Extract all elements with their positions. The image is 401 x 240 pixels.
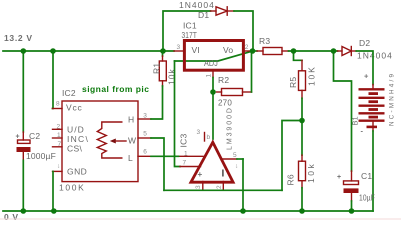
svg-text:GND: GND — [67, 166, 87, 176]
battery B1 — [351, 72, 396, 136]
wire battery to rail — [372, 131, 374, 211]
svg-text:5: 5 — [233, 152, 237, 159]
diode D2 — [338, 38, 393, 61]
svg-text:+: + — [198, 170, 203, 179]
svg-text:signal from pic: signal from pic — [82, 84, 149, 94]
diode D1 — [163, 0, 253, 51]
wire D2 to battery — [356, 51, 373, 85]
pin stubs left — [179, 155, 204, 157]
wire top rail left — [3, 50, 174, 52]
svg-text:H: H — [128, 115, 134, 125]
svg-text:CS\: CS\ — [67, 144, 82, 154]
svg-text:100K: 100K — [59, 183, 84, 193]
wire op-amp bottom — [164, 189, 282, 191]
svg-text:R5: R5 — [288, 77, 298, 88]
svg-text:3: 3 — [195, 185, 202, 189]
svg-text:1N4004: 1N4004 — [357, 51, 392, 61]
pins left — [53, 108, 63, 110]
svg-text:5: 5 — [143, 131, 147, 138]
svg-text:1000µF: 1000µF — [26, 151, 56, 161]
power pin stub top — [204, 133, 206, 142]
wire W pin down — [151, 138, 164, 190]
svg-text:+: + — [364, 72, 369, 81]
svg-text:6: 6 — [143, 149, 147, 156]
wire ADJ down — [212, 78, 214, 140]
capacitor C2 — [16, 131, 57, 161]
svg-text:8: 8 — [56, 101, 60, 108]
svg-text:L: L — [128, 153, 133, 163]
svg-text:+: + — [16, 134, 20, 141]
svg-text:↓: ↓ — [235, 163, 238, 170]
svg-text:W: W — [128, 135, 136, 145]
svg-text:C1: C1 — [361, 171, 372, 181]
svg-text:+: + — [337, 174, 341, 181]
svg-text:2: 2 — [57, 123, 61, 130]
bottom stubs — [202, 182, 204, 191]
pins right — [138, 118, 151, 120]
wire op-amp right to ground — [242, 159, 244, 211]
wire R1 to H pin — [151, 86, 163, 119]
svg-text:U/D: U/D — [67, 125, 84, 135]
svg-text:R2: R2 — [218, 75, 229, 85]
resistor R1 — [152, 51, 177, 86]
svg-text:3: 3 — [177, 44, 181, 51]
svg-text:2: 2 — [245, 44, 249, 51]
svg-text:Vcc: Vcc — [66, 103, 83, 113]
wire R5 to R6 — [301, 98, 303, 155]
resistor R2 — [217, 51, 252, 108]
svg-text:D2: D2 — [359, 38, 370, 48]
potentiometer glyph — [97, 122, 122, 158]
svg-text:IC2: IC2 — [62, 88, 76, 98]
svg-text:INC\: INC\ — [67, 134, 88, 144]
svg-text:7: 7 — [58, 141, 62, 148]
wire rail right — [289, 50, 338, 52]
svg-text:1N4004: 1N4004 — [179, 0, 214, 10]
junction dots — [21, 48, 27, 54]
resistor R3 — [253, 36, 289, 55]
wire L pin to op-amp — [151, 155, 179, 157]
svg-text:270: 270 — [218, 98, 232, 108]
wire C1 branch — [334, 51, 352, 171]
svg-text:IC3: IC3 — [179, 133, 189, 147]
wire feedback from R5/R6 — [282, 121, 302, 191]
svg-text:1: 1 — [57, 132, 61, 139]
svg-text:0 V: 0 V — [4, 212, 18, 222]
wire ADJ-pot feedback vertical — [175, 61, 181, 167]
pin stub right — [222, 158, 237, 160]
svg-text:1: 1 — [184, 151, 188, 158]
op-amp IC3 LM3900 — [179, 108, 244, 190]
svg-text:D1: D1 — [198, 10, 209, 20]
svg-text:317T: 317T — [182, 30, 198, 40]
svg-text:3: 3 — [143, 113, 147, 120]
svg-text:R3: R3 — [259, 36, 270, 46]
resistor R5 — [288, 60, 317, 98]
wire IC2 GND down — [52, 171, 54, 211]
wire bottom rail — [3, 210, 373, 212]
svg-text:13.2 V: 13.2 V — [4, 33, 32, 43]
wire C1 bottom — [351, 201, 353, 211]
IC2 digital pot — [53, 101, 152, 193]
wire C2 top — [22, 51, 24, 132]
svg-text:10k: 10k — [306, 163, 316, 183]
svg-text:7: 7 — [183, 160, 187, 167]
svg-text:3: 3 — [197, 129, 201, 136]
wire IC2 Vcc supply — [52, 51, 55, 109]
svg-text:2: 2 — [216, 185, 223, 189]
svg-text:10K: 10K — [307, 67, 317, 86]
capacitor C1 — [337, 171, 375, 203]
triangle — [191, 142, 233, 182]
svg-text:↓: ↓ — [57, 163, 60, 170]
wire faint artifact line — [0, 218, 401, 220]
svg-text:1: 1 — [206, 74, 213, 78]
svg-text:b: b — [207, 134, 211, 141]
svg-text:NC-MNH4/9: NC-MNH4/9 — [389, 74, 396, 126]
svg-text:VI: VI — [192, 45, 200, 55]
svg-text:C2: C2 — [29, 131, 40, 141]
svg-text:R6: R6 — [286, 174, 296, 185]
wire R5 jog — [294, 51, 303, 60]
svg-text:ADJ: ADJ — [204, 58, 218, 68]
wire R6 to rail — [301, 188, 303, 211]
svg-text:10µF: 10µF — [359, 193, 375, 203]
svg-text:R1: R1 — [152, 63, 162, 74]
wire C2 bottom — [22, 160, 24, 211]
resistor R6 — [286, 155, 317, 188]
svg-text:Vo: Vo — [223, 45, 233, 55]
wire crossing to VO — [175, 51, 253, 61]
op-amp IC1 LM317 — [174, 21, 253, 78]
